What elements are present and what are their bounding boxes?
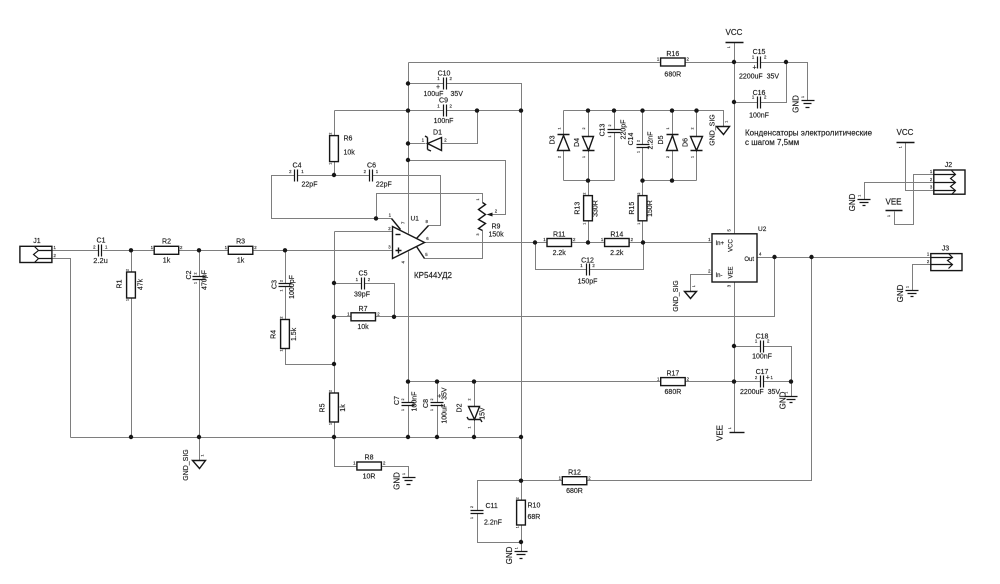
potentiometer R9 150k [476, 199, 504, 239]
svg-text:1: 1 [785, 392, 789, 394]
capacitor C13 220pF [600, 120, 628, 140]
svg-text:D1: D1 [433, 130, 442, 137]
ground GND at R8 [393, 472, 416, 490]
wire: C11 parallel loop [478, 481, 522, 543]
wire: VCC rail x=408 (U1 pin7) [408, 63, 410, 234]
svg-text:1: 1 [858, 195, 862, 197]
svg-text:1: 1 [637, 151, 641, 153]
diode D5 [658, 128, 679, 159]
svg-text:2: 2 [194, 273, 198, 275]
svg-text:J2: J2 [945, 162, 953, 169]
svg-text:2200uF 35V: 2200uF 35V [739, 74, 779, 81]
svg-text:330R: 330R [593, 200, 600, 217]
svg-text:R17: R17 [666, 371, 679, 378]
svg-text:GND: GND [896, 284, 905, 302]
resistor R10 68R [516, 497, 541, 528]
svg-text:1k: 1k [340, 404, 347, 412]
power symbol VEE at J2 [885, 198, 902, 218]
wire: D1 leads [409, 111, 478, 144]
svg-text:2: 2 [470, 506, 474, 508]
svg-text:2.2k: 2.2k [553, 250, 567, 257]
svg-text:C4: C4 [293, 162, 302, 169]
svg-text:GND: GND [792, 95, 801, 113]
svg-text:1: 1 [430, 409, 434, 411]
svg-text:1: 1 [194, 282, 198, 284]
wire: C9 row y=110.6 [335, 110, 522, 112]
svg-text:R5: R5 [320, 403, 327, 412]
resistor R2 1k [151, 239, 183, 265]
wire: GND_SIG stub bottom-left [199, 438, 201, 461]
svg-text:1: 1 [906, 286, 910, 288]
wire: R5 to R8 to GND [335, 365, 409, 478]
svg-text:R8: R8 [365, 455, 374, 462]
wire: C18 row [735, 347, 792, 382]
wire: D3 leads [563, 111, 565, 181]
resistor R11 2.2k [543, 231, 576, 256]
svg-text:1: 1 [402, 473, 406, 475]
svg-text:J1: J1 [33, 238, 41, 245]
svg-text:GND_SIG: GND_SIG [673, 280, 680, 312]
svg-text:R1: R1 [117, 279, 124, 288]
diode D3 [550, 128, 570, 159]
svg-text:D4: D4 [574, 138, 581, 147]
wire: U2 VEE vertical down to VEE symbol [734, 283, 736, 433]
svg-text:C5: C5 [359, 271, 368, 278]
wire: feedback U2 out down to R7/C5 node [395, 258, 775, 317]
svg-text:GND_SIG: GND_SIG [710, 114, 717, 146]
svg-text:1: 1 [608, 136, 612, 138]
svg-text:R11: R11 [553, 231, 565, 238]
svg-text:2: 2 [329, 390, 333, 392]
svg-text:2: 2 [637, 140, 641, 142]
wire: C8 leads [437, 382, 439, 438]
svg-text:2: 2 [608, 125, 612, 127]
svg-text:C11: C11 [486, 503, 498, 510]
capacitor C6 22pF [364, 162, 392, 188]
svg-text:D2: D2 [457, 403, 464, 412]
svg-text:1: 1 [724, 121, 728, 123]
wire: J2 pin1 to VEE [895, 175, 934, 225]
svg-text:680R: 680R [665, 389, 682, 396]
wire: main input signal row J1 to U1 pin3 [53, 250, 393, 252]
svg-text:2: 2 [280, 280, 284, 282]
wire: U1 pin5 to R9 pin3 [425, 231, 483, 259]
power symbol VCC at J2 [897, 128, 915, 148]
power symbol VEE bottom [716, 425, 745, 441]
svg-text:1: 1 [329, 163, 333, 165]
svg-text:470pF: 470pF [202, 270, 209, 290]
svg-text:GND: GND [393, 472, 402, 490]
svg-text:220pF: 220pF [621, 120, 628, 140]
wire: diode bottom rail right segment [643, 180, 697, 182]
capacitor C2 470pF [186, 270, 209, 290]
wire: U1 VCC filter top rail y=62 [409, 62, 735, 64]
svg-text:C13: C13 [600, 123, 607, 136]
svg-text:22pF: 22pF [376, 181, 392, 188]
svg-text:D6: D6 [683, 138, 690, 147]
ground GND_SIG at U2 In- [673, 280, 697, 312]
diode D4 [574, 128, 595, 159]
svg-text:2.2nF: 2.2nF [648, 132, 655, 150]
svg-text:R9: R9 [492, 224, 501, 231]
ground GND top right [792, 95, 815, 113]
wire: ground rail x=521 below R10 to GND [521, 526, 523, 552]
svg-text:In-: In- [716, 273, 723, 279]
wire: C3 / R4 branch down to R5 node [286, 251, 335, 365]
svg-text:3: 3 [476, 234, 480, 236]
svg-text:2: 2 [637, 193, 641, 195]
svg-text:100nF: 100nF [434, 118, 454, 125]
wire: C10 row y=83.5 [409, 84, 522, 111]
svg-text:1: 1 [887, 215, 891, 217]
svg-text:1: 1 [801, 96, 805, 98]
svg-text:68R: 68R [528, 514, 541, 521]
wire: VCC node to C15 to GND [735, 63, 808, 101]
wire: C2 leads [199, 251, 201, 438]
svg-text:1: 1 [583, 223, 587, 225]
wire: U2 Out row to J3 pin1 [758, 257, 931, 259]
svg-text:22pF: 22pF [302, 181, 318, 188]
svg-text:VEE: VEE [716, 425, 725, 441]
svg-text:10R: 10R [363, 473, 376, 480]
resistor R8 10R [353, 455, 386, 481]
resistor R7 10k [347, 306, 380, 331]
svg-text:U1: U1 [411, 216, 420, 223]
capacitor C9 100nF [434, 98, 454, 125]
resistor R14 2.2k [601, 231, 634, 256]
svg-text:R13: R13 [575, 202, 582, 215]
svg-text:150R: 150R [647, 200, 654, 217]
svg-text:1: 1 [126, 299, 130, 301]
diode D2 zener 15V [457, 399, 487, 429]
svg-text:R15: R15 [629, 202, 636, 215]
svg-text:1: 1 [728, 427, 732, 429]
svg-text:2: 2 [401, 399, 405, 401]
wire: inverting input spine x=334 [335, 232, 393, 365]
wire: R1 leads [131, 251, 133, 438]
capacitor C12 150pF [578, 257, 598, 285]
svg-text:1k: 1k [237, 258, 245, 265]
wire: C13 leads [614, 111, 616, 181]
capacitor C1 2.2u [93, 238, 108, 265]
svg-text:1: 1 [692, 285, 696, 287]
svg-text:J3: J3 [942, 246, 950, 253]
svg-text:GND_SIG: GND_SIG [183, 449, 190, 481]
capacitor C15 2200uF 35V [739, 49, 779, 81]
ground GND at J2 pin2 [848, 193, 871, 211]
svg-text:1k: 1k [163, 258, 171, 265]
svg-text:2: 2 [583, 193, 587, 195]
svg-text:680R: 680R [664, 71, 681, 78]
svg-text:VCC: VCC [897, 128, 914, 137]
svg-text:C7: C7 [394, 396, 401, 405]
resistor R17 680R [657, 371, 690, 396]
svg-text:R3: R3 [236, 239, 245, 246]
ground GND_SIG diode rail [710, 114, 730, 146]
svg-text:R4: R4 [271, 330, 278, 339]
svg-text:2: 2 [430, 399, 434, 401]
wire: balance wiper feed y=160 [409, 161, 506, 215]
svg-text:VCC: VCC [726, 28, 743, 37]
svg-text:Конденсаторы электролитические: Конденсаторы электролитические [745, 129, 873, 138]
svg-text:1000pF: 1000pF [289, 275, 296, 299]
svg-text:1: 1 [470, 517, 474, 519]
svg-text:R10: R10 [528, 503, 541, 510]
svg-text:VEE: VEE [728, 266, 734, 278]
capacitor C7 100nF [394, 392, 419, 412]
svg-text:2: 2 [126, 269, 130, 271]
svg-text:1: 1 [727, 46, 731, 48]
svg-text:C8: C8 [423, 399, 430, 408]
svg-text:10k: 10k [357, 324, 369, 331]
capacitor C3 1000pF [272, 275, 297, 299]
svg-text:R12: R12 [568, 470, 581, 477]
svg-text:C14: C14 [628, 132, 635, 145]
svg-text:10k: 10k [344, 150, 356, 157]
resistor R1 47k [117, 269, 145, 301]
capacitor C4 22pF [289, 162, 317, 188]
svg-text:VCC: VCC [728, 239, 734, 252]
svg-text:1: 1 [280, 350, 284, 352]
svg-text:39pF: 39pF [354, 291, 370, 298]
svg-text:1: 1 [401, 409, 405, 411]
svg-text:R7: R7 [359, 306, 368, 313]
buffer U2 [708, 226, 767, 287]
wire: R12 row from ground rail up to U2 out [522, 258, 812, 481]
wire: C5 row [335, 284, 395, 317]
wire: C14 leads [642, 111, 644, 181]
capacitor C5 39pF [354, 271, 371, 299]
svg-text:2.2u: 2.2u [93, 256, 108, 265]
svg-text:2: 2 [280, 317, 284, 319]
diode D1 zener [422, 130, 448, 152]
wire: J1 pin2 down to signal ground rail [53, 259, 71, 438]
capacitor C11 2.2nF [470, 503, 502, 527]
svg-text:150pF: 150pF [578, 278, 598, 285]
connector J2 [930, 162, 965, 195]
svg-text:1: 1 [201, 455, 205, 457]
wire: diode limiter top rail to GND_SIG [564, 111, 724, 127]
wire: R13 leads [588, 181, 590, 243]
wire: J2 pin2 to GND [865, 183, 934, 200]
capacitor C18 100nF [752, 334, 772, 361]
svg-text:C3: C3 [272, 280, 279, 289]
wire: C12 parallel branch [536, 243, 644, 270]
svg-text:2.2k: 2.2k [610, 250, 624, 257]
svg-text:GND: GND [505, 546, 514, 564]
wire: D2 leads [474, 382, 476, 438]
resistor R13 330R [575, 193, 600, 225]
wire: C17 row to GND [735, 382, 792, 397]
svg-text:2200uF 35V: 2200uF 35V [740, 389, 780, 396]
svg-text:1: 1 [691, 156, 695, 158]
svg-text:680R: 680R [566, 488, 583, 495]
svg-text:15V: 15V [480, 407, 487, 420]
capacitor C10 100uF 35V [424, 70, 464, 98]
resistor R3 1k [225, 239, 258, 265]
svg-text:2: 2 [558, 156, 562, 158]
wire: J2 pin3 to VCC [906, 143, 934, 191]
svg-text:1: 1 [582, 156, 586, 158]
capacitor C16 100nF [749, 90, 769, 119]
resistor R5 1k [320, 390, 348, 425]
svg-text:1: 1 [899, 146, 903, 148]
svg-text:R2: R2 [162, 239, 171, 246]
svg-text:100nF: 100nF [752, 353, 772, 360]
wire: D4 leads [588, 111, 590, 181]
wire: D6 leads [696, 111, 698, 181]
svg-text:2: 2 [516, 497, 520, 499]
wire: R7 row [335, 316, 395, 318]
wire: U1 output row to U2 In+ [425, 242, 713, 244]
svg-text:C9: C9 [439, 98, 448, 105]
connector J1 [20, 238, 57, 263]
svg-text:150k: 150k [489, 232, 505, 239]
svg-text:1: 1 [468, 427, 472, 429]
svg-text:+: + [437, 394, 444, 398]
svg-text:U2: U2 [758, 226, 767, 233]
svg-text:2: 2 [468, 399, 472, 401]
resistor R12 680R [559, 470, 592, 495]
svg-text:C2: C2 [186, 270, 193, 279]
svg-text:1: 1 [637, 223, 641, 225]
wire: J3 pin2 to GND [913, 265, 931, 291]
svg-text:2: 2 [582, 128, 586, 130]
wire: signal ground bottom rail y=437 [71, 437, 522, 439]
resistor R4 1.5k [271, 317, 298, 352]
diode D6 [683, 128, 703, 159]
ground GND bottom center [505, 546, 528, 564]
svg-text:1: 1 [666, 128, 670, 130]
svg-text:100nF: 100nF [412, 392, 419, 412]
svg-text:2: 2 [329, 133, 333, 135]
svg-text:100uF 35V: 100uF 35V [442, 387, 449, 424]
svg-text:35V: 35V [451, 91, 464, 98]
capacitor C17 2200uF 35V [740, 369, 780, 396]
wire: diode bottom rail left segment [564, 180, 615, 182]
wire: U2 In- to GND_SIG [691, 275, 713, 292]
svg-text:с шагом 7,5мм: с шагом 7,5мм [745, 138, 799, 147]
svg-text:Out: Out [744, 257, 754, 263]
ground GND_SIG bottom-left [183, 449, 206, 481]
op-amp U1 KP544UD2 [388, 212, 452, 280]
wire: ground rail x=521 top section [521, 84, 523, 501]
resistor R6 10k [329, 133, 356, 165]
capacitor C14 2.2nF [628, 132, 655, 153]
power symbol VCC top [726, 28, 744, 48]
wire: D5 leads [672, 111, 674, 181]
svg-text:1: 1 [558, 128, 562, 130]
wire: R15 leads [642, 181, 644, 243]
resistor R16 680R [657, 51, 690, 78]
wire: C4 balance loop to U1 pin1 node [272, 176, 392, 219]
svg-text:R16: R16 [666, 51, 679, 58]
svg-text:R6: R6 [344, 136, 353, 143]
connector J3 [927, 246, 962, 271]
svg-text:47k: 47k [138, 278, 145, 290]
wire: VEE filtered rail y=381.6 with R17 to U2 VEE node [409, 381, 735, 383]
svg-text:2: 2 [691, 128, 695, 130]
capacitor C8 100uF 35V [423, 387, 449, 424]
svg-text:КР544УД2: КР544УД2 [414, 271, 452, 280]
svg-text:1: 1 [280, 290, 284, 292]
svg-text:VEE: VEE [885, 198, 901, 207]
wire: C16 row [735, 63, 787, 103]
svg-text:1: 1 [476, 199, 480, 201]
svg-text:1: 1 [515, 547, 519, 549]
wire: U1 pin4 rail down to VEE filter row [408, 252, 410, 438]
svg-text:1: 1 [516, 526, 520, 528]
svg-text:In+: In+ [716, 241, 725, 247]
ground GND at C17 [778, 391, 797, 409]
svg-text:2.2nF: 2.2nF [484, 520, 502, 527]
svg-text:+: + [753, 65, 757, 72]
wire: R6 leads [334, 111, 336, 176]
svg-text:D3: D3 [550, 135, 557, 144]
svg-text:1: 1 [329, 423, 333, 425]
svg-text:R14: R14 [610, 231, 623, 238]
wire: VCC vertical to U2 pin5 [734, 43, 736, 234]
resistor R15 150R [629, 193, 654, 225]
svg-text:1.5k: 1.5k [291, 327, 298, 341]
note text electrolytic capacitors [745, 129, 873, 147]
svg-text:D5: D5 [658, 135, 665, 144]
wire: compensation row C4-R6-C6 to pin8 [298, 176, 441, 226]
svg-text:100nF: 100nF [749, 113, 769, 120]
ground GND at J3 pin2 [896, 284, 919, 302]
svg-text:GND: GND [848, 193, 857, 211]
svg-text:2: 2 [666, 156, 670, 158]
wire: U1 pin1 to R9 pin1 [377, 194, 483, 219]
svg-text:+: + [766, 374, 770, 381]
